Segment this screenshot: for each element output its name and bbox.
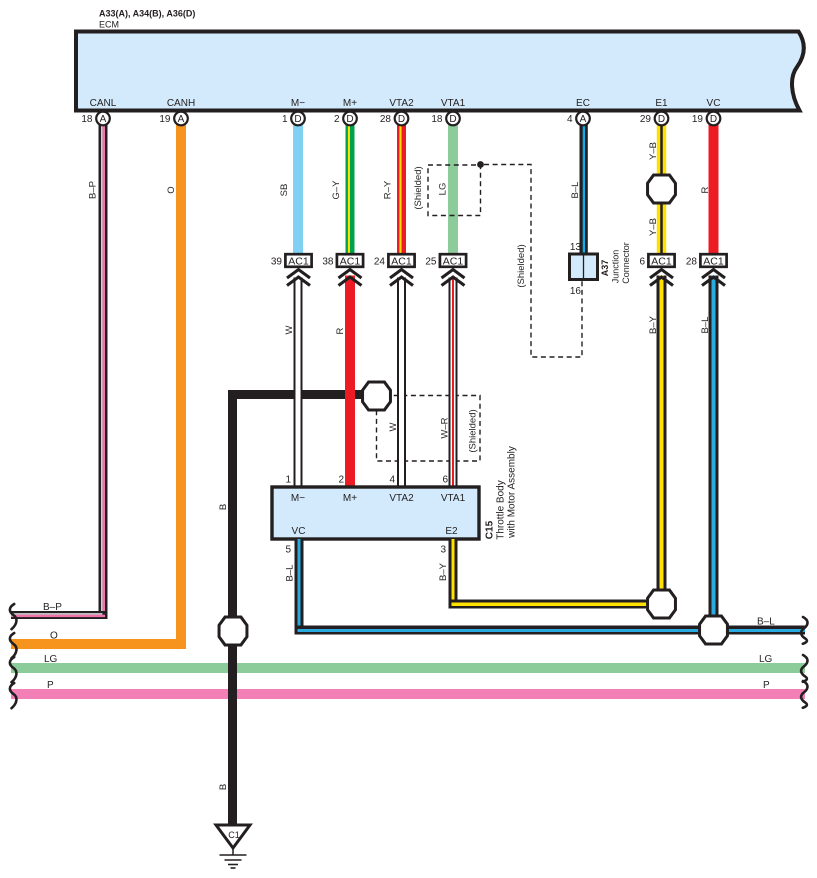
svg-text:B–Y: B–Y [438, 562, 449, 581]
wire LG horizontal full width [11, 663, 805, 673]
svg-text:CANL: CANL [90, 98, 117, 109]
octagon connector on E1 wire [648, 175, 676, 203]
svg-text:D: D [658, 114, 665, 125]
wire LG from VTA1 [448, 124, 458, 253]
svg-text:25: 25 [425, 256, 437, 267]
svg-text:O: O [50, 631, 58, 642]
svg-text:VC: VC [707, 98, 721, 109]
wire G-Y from M+ [346, 124, 355, 253]
svg-text:E1: E1 [655, 98, 668, 109]
svg-text:B: B [218, 784, 229, 790]
svg-text:19: 19 [692, 114, 704, 125]
svg-text:with Motor Assembly: with Motor Assembly [506, 446, 517, 539]
svg-text:18: 18 [431, 114, 443, 125]
svg-text:VC: VC [292, 526, 306, 537]
svg-text:P: P [763, 680, 770, 691]
svg-text:M+: M+ [343, 493, 357, 504]
svg-text:A: A [580, 114, 587, 125]
svg-text:CANH: CANH [167, 98, 195, 109]
svg-text:(Shielded): (Shielded) [413, 166, 424, 209]
svg-text:5: 5 [285, 545, 291, 556]
octagon connector on shield drain (black wire) [363, 382, 391, 410]
svg-text:AC1: AC1 [651, 255, 672, 267]
svg-text:D: D [294, 114, 301, 125]
svg-text:A: A [100, 114, 107, 125]
svg-text:AC1: AC1 [340, 255, 361, 267]
svg-text:B–Y: B–Y [648, 315, 659, 334]
svg-text:VTA2: VTA2 [389, 98, 414, 109]
wire O from CANH [176, 124, 186, 649]
svg-text:2: 2 [334, 114, 340, 125]
wire R from VC [709, 124, 719, 253]
svg-text:Connector: Connector [621, 242, 631, 284]
svg-text:28: 28 [380, 114, 392, 125]
wire B-L below AC1 28 [709, 276, 719, 617]
black wire B horizontal to shield octagon [228, 390, 364, 399]
C15 throttle body box [272, 487, 479, 539]
svg-text:A: A [178, 114, 185, 125]
svg-text:16: 16 [570, 286, 582, 297]
svg-text:LG: LG [437, 183, 448, 196]
svg-text:19: 19 [159, 114, 171, 125]
wire B-Y from C15 E2 down and right [449, 539, 663, 609]
svg-text:LG: LG [759, 654, 773, 665]
svg-text:M−: M− [291, 98, 305, 109]
svg-text:13: 13 [570, 242, 582, 253]
svg-text:C1: C1 [228, 830, 240, 840]
svg-text:(Shielded): (Shielded) [516, 244, 527, 287]
svg-text:B–L: B–L [757, 617, 775, 628]
svg-text:6: 6 [442, 475, 448, 486]
shield drain dot node [477, 161, 484, 168]
svg-text:R–Y: R–Y [383, 180, 394, 199]
svg-text:O: O [166, 186, 177, 193]
svg-text:VTA1: VTA1 [441, 493, 466, 504]
wire B-Y below AC1 6 [657, 276, 667, 591]
svg-text:Y–B: Y–B [648, 142, 659, 160]
svg-text:W: W [388, 422, 399, 431]
svg-text:B–L: B–L [570, 182, 581, 199]
octagon connector on black wire B [219, 617, 247, 645]
svg-text:29: 29 [640, 114, 652, 125]
wire P horizontal full width [11, 689, 805, 699]
wire B-P horizontal bottom left [11, 611, 108, 619]
chevron arrows below AC1 boxes [287, 270, 725, 286]
svg-text:28: 28 [686, 256, 698, 267]
wire R-Y from VTA2 [397, 124, 406, 253]
svg-text:LG: LG [44, 654, 58, 665]
svg-text:D: D [449, 114, 456, 125]
shielded dashed box around LG wire [428, 165, 481, 216]
svg-text:B–L: B–L [700, 317, 711, 334]
svg-text:(Shielded): (Shielded) [467, 409, 478, 452]
svg-text:G–Y: G–Y [331, 180, 342, 200]
svg-text:R: R [700, 186, 711, 193]
AC1 connector 38 [322, 254, 363, 267]
continuation braces right [801, 617, 807, 708]
AC1 connector 25 [425, 254, 466, 267]
svg-text:2: 2 [338, 475, 344, 486]
svg-text:4: 4 [389, 475, 395, 486]
octagon connector on B-L junction [700, 616, 728, 644]
svg-text:A37: A37 [600, 260, 610, 277]
AC1 connector 28 [686, 254, 727, 267]
svg-text:B–P: B–P [87, 181, 98, 199]
svg-text:AC1: AC1 [703, 255, 724, 267]
black wire drawn over horizontals [228, 605, 237, 715]
wire W-R below AC1 25 [449, 278, 458, 488]
octagon connector on B-Y junction [648, 590, 676, 618]
continuation braces left [10, 604, 17, 708]
svg-text:1: 1 [282, 114, 288, 125]
svg-text:B: B [218, 504, 229, 510]
svg-text:ECM: ECM [99, 20, 119, 30]
svg-text:SB: SB [279, 184, 290, 197]
black wire B vertical to ground [228, 390, 237, 826]
svg-text:39: 39 [271, 256, 283, 267]
svg-text:AC1: AC1 [288, 255, 309, 267]
svg-text:6: 6 [639, 256, 645, 267]
AC1 connector 6 [639, 254, 674, 267]
svg-text:Throttle Body: Throttle Body [495, 480, 506, 539]
wire B-P from CANL [99, 124, 108, 619]
ECM A33/A34/A36 box [76, 32, 804, 111]
svg-text:D: D [710, 114, 717, 125]
svg-text:M−: M− [291, 493, 305, 504]
wire B-L from EC [580, 124, 588, 254]
wire W below AC1 24 [397, 278, 406, 488]
svg-text:C15: C15 [484, 520, 495, 539]
svg-text:M+: M+ [343, 98, 357, 109]
lower shielded dashed box around W and W-R [377, 396, 481, 462]
svg-text:Y–B: Y–B [648, 218, 659, 236]
svg-text:W: W [284, 325, 295, 334]
svg-text:W–R: W–R [439, 417, 450, 438]
svg-text:18: 18 [81, 114, 93, 125]
svg-text:B–L: B–L [284, 565, 295, 582]
wire W below AC1 39 [294, 278, 303, 488]
svg-text:A33(A), A34(B), A36(D): A33(A), A34(B), A36(D) [99, 9, 195, 19]
svg-text:24: 24 [374, 256, 386, 267]
AC1 connector 24 [374, 254, 415, 267]
svg-text:EC: EC [576, 98, 590, 109]
svg-text:AC1: AC1 [443, 255, 464, 267]
ground symbol C1 [216, 825, 250, 868]
svg-text:P: P [47, 680, 54, 691]
svg-text:38: 38 [322, 256, 334, 267]
svg-text:R: R [335, 327, 346, 334]
wire B-L from C15 VC down and right [295, 539, 806, 635]
svg-text:E2: E2 [445, 526, 458, 537]
wire O horizontal bottom left [11, 639, 186, 649]
wire Y-B from E1 [657, 124, 667, 253]
svg-text:D: D [346, 114, 353, 125]
svg-text:Junction: Junction [611, 250, 621, 284]
A37 junction connector box [570, 242, 598, 297]
svg-text:VTA2: VTA2 [389, 493, 414, 504]
AC1 connector 39 [271, 254, 312, 267]
wire SB from M- [293, 124, 303, 253]
svg-text:D: D [398, 114, 405, 125]
svg-text:3: 3 [440, 545, 446, 556]
svg-text:B–P: B–P [43, 602, 62, 613]
ECM pin circles [81, 112, 109, 126]
svg-text:VTA1: VTA1 [441, 98, 466, 109]
svg-text:1: 1 [285, 475, 291, 486]
shield drain dashed path to A37 pin 16 [484, 165, 582, 358]
wire R below AC1 38 [345, 276, 355, 488]
svg-text:AC1: AC1 [391, 255, 412, 267]
svg-text:4: 4 [567, 114, 573, 125]
